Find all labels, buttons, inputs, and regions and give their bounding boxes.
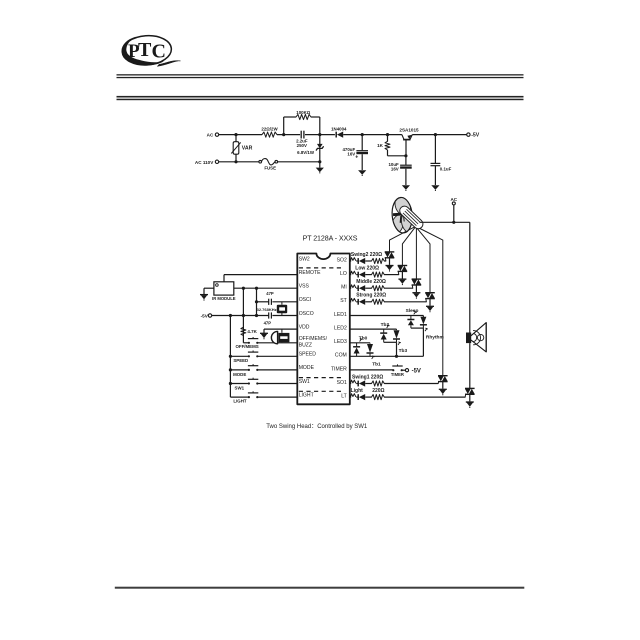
svg-text:Light: Light: [351, 388, 364, 394]
svg-text:Swing2 220Ω: Swing2 220Ω: [351, 252, 382, 258]
svg-text:LED3: LED3: [334, 339, 347, 345]
svg-text:Sleep: Sleep: [406, 308, 419, 314]
svg-text:BUZZ: BUZZ: [299, 342, 312, 348]
svg-text:LIGHT: LIGHT: [299, 392, 314, 398]
svg-text:1N4004: 1N4004: [331, 126, 347, 131]
svg-text:4.7K: 4.7K: [247, 329, 257, 334]
svg-text:VDD: VDD: [299, 324, 310, 330]
svg-text:16V: 16V: [347, 151, 355, 156]
svg-text:Strong 220Ω: Strong 220Ω: [356, 293, 386, 299]
svg-text:C: C: [152, 41, 166, 63]
svg-text:VSS: VSS: [299, 284, 310, 290]
svg-text:-5V: -5V: [412, 368, 421, 374]
svg-text:Low 220Ω: Low 220Ω: [355, 265, 379, 271]
svg-text:220Ω: 220Ω: [372, 388, 384, 394]
svg-text:Middle 220Ω: Middle 220Ω: [356, 279, 386, 285]
svg-text:22Ω/2W: 22Ω/2W: [261, 127, 278, 132]
svg-text:AC 110V: AC 110V: [195, 160, 214, 165]
svg-text:TIMER: TIMER: [331, 366, 347, 372]
svg-text:AC: AC: [207, 133, 214, 138]
svg-text:SW2: SW2: [299, 256, 310, 262]
svg-text:SO1: SO1: [337, 380, 347, 386]
svg-text:+: +: [355, 155, 358, 161]
svg-text:TIMER: TIMER: [391, 372, 404, 377]
svg-text:6.8V/1W: 6.8V/1W: [297, 150, 315, 155]
svg-text:ST: ST: [340, 298, 347, 304]
svg-text:-5V: -5V: [471, 133, 480, 139]
svg-text:LT: LT: [341, 394, 347, 400]
svg-text:47P: 47P: [266, 291, 274, 296]
svg-text:100KΩ: 100KΩ: [296, 110, 310, 115]
svg-text:Tb3: Tb3: [399, 348, 408, 354]
svg-text:16V: 16V: [391, 166, 399, 171]
svg-text:OSCI: OSCI: [299, 297, 311, 303]
svg-text:OSCO: OSCO: [299, 311, 314, 317]
svg-text:PT 2128A - XXXS: PT 2128A - XXXS: [303, 234, 358, 242]
svg-text:SPEED: SPEED: [299, 352, 317, 358]
svg-text:MODE: MODE: [299, 365, 315, 371]
svg-text:250V: 250V: [297, 143, 307, 148]
svg-text:SPEED: SPEED: [233, 358, 248, 363]
svg-text:2SA1015: 2SA1015: [399, 128, 419, 133]
svg-text:0.1uF: 0.1uF: [440, 167, 452, 172]
svg-text:-5V: -5V: [201, 314, 209, 319]
svg-text:Tb1: Tb1: [372, 361, 381, 367]
svg-text:OFF/MEMS: OFF/MEMS: [236, 344, 259, 349]
svg-text:FUSE: FUSE: [264, 166, 276, 171]
svg-text:Swing1 220Ω: Swing1 220Ω: [352, 374, 383, 380]
svg-text:LED2: LED2: [334, 326, 347, 332]
svg-text:REMOTE: REMOTE: [299, 270, 321, 276]
svg-text:COM: COM: [335, 353, 347, 359]
svg-text:MODE: MODE: [233, 372, 246, 377]
svg-text:OFF/MEMS/: OFF/MEMS/: [299, 336, 328, 342]
svg-text:SW1: SW1: [235, 386, 245, 391]
svg-text:1K: 1K: [377, 143, 384, 148]
svg-text:32.768KHz: 32.768KHz: [257, 307, 277, 312]
svg-text:AC: AC: [450, 197, 457, 202]
svg-text:LO: LO: [340, 271, 347, 277]
svg-text:47P: 47P: [264, 320, 272, 325]
svg-text:LED1: LED1: [334, 312, 347, 318]
svg-text:VAR: VAR: [242, 145, 253, 151]
svg-text:MI: MI: [341, 285, 347, 291]
svg-text:Rhythm: Rhythm: [426, 335, 444, 341]
svg-text:SO2: SO2: [337, 257, 347, 263]
svg-text:LIGHT: LIGHT: [233, 398, 246, 403]
svg-text:Two Swing Head：Controlled by S: Two Swing Head：Controlled by SW1: [266, 424, 368, 430]
svg-text:T: T: [138, 39, 152, 61]
svg-text:IR MODULE: IR MODULE: [212, 296, 236, 301]
svg-text:SW1: SW1: [299, 379, 310, 385]
